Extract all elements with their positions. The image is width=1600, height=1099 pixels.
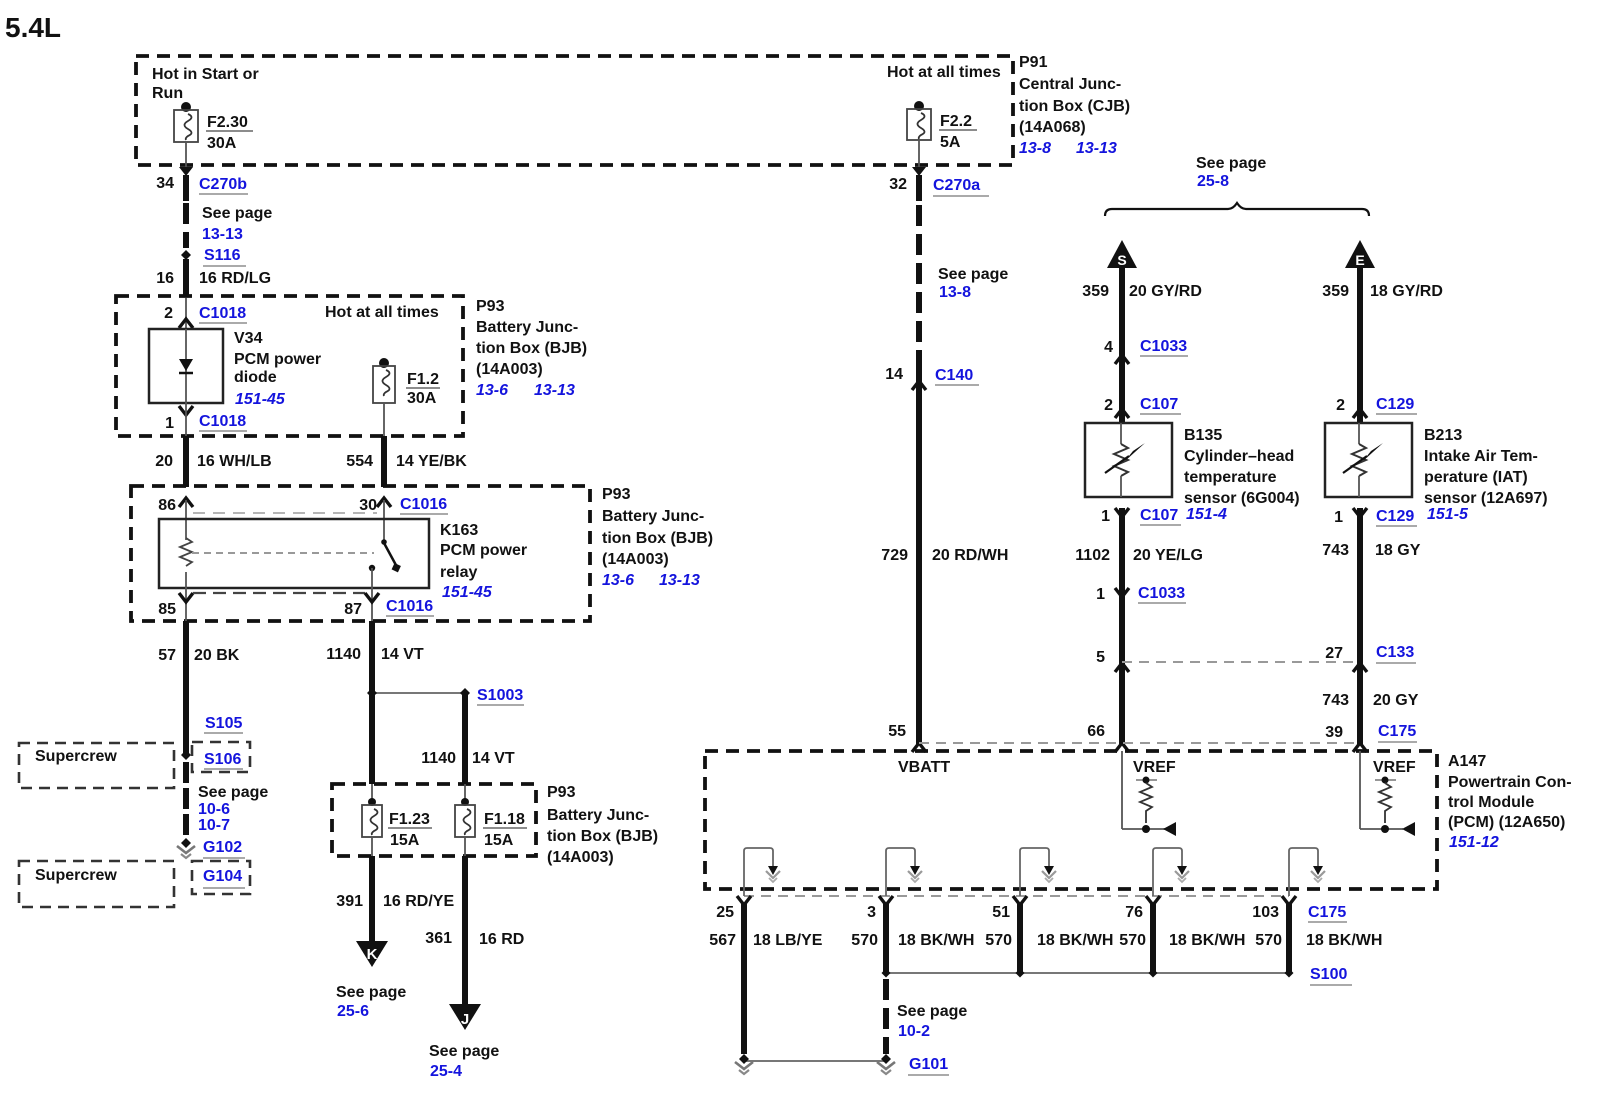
svg-text:13-13: 13-13 bbox=[534, 382, 575, 399]
svg-text:20 GY/RD: 20 GY/RD bbox=[1129, 283, 1202, 300]
svg-text:18 BK/WH: 18 BK/WH bbox=[898, 932, 974, 949]
svg-text:V34: V34 bbox=[234, 330, 263, 347]
wire below F2.2 bbox=[918, 140, 920, 167]
svg-text:C140: C140 bbox=[935, 367, 973, 384]
svg-text:F2.30: F2.30 bbox=[207, 114, 248, 131]
svg-text:Supercrew: Supercrew bbox=[35, 867, 117, 884]
pin 25 arrow bbox=[737, 896, 751, 905]
svg-text:F1.23: F1.23 bbox=[389, 811, 430, 828]
svg-text:See page: See page bbox=[429, 1043, 499, 1060]
pin 85 bbox=[179, 593, 193, 602]
brace bbox=[1105, 203, 1369, 216]
wire 34 C270b bbox=[183, 175, 189, 201]
svg-text:1: 1 bbox=[1096, 586, 1105, 603]
wire 359 20 GY/RD bbox=[1119, 266, 1125, 423]
svg-text:C175: C175 bbox=[1378, 723, 1416, 740]
svg-text:tion Box (BJB): tion Box (BJB) bbox=[602, 530, 713, 547]
svg-text:361: 361 bbox=[425, 930, 452, 947]
svg-text:25-4: 25-4 bbox=[430, 1063, 462, 1080]
svg-text:5: 5 bbox=[1096, 649, 1105, 666]
svg-text:See page: See page bbox=[897, 1003, 967, 1020]
svg-text:B135: B135 bbox=[1184, 427, 1222, 444]
connector C107 pin 2 bbox=[1115, 409, 1129, 418]
wire 57 20 BK bbox=[183, 621, 189, 753]
svg-text:14: 14 bbox=[885, 366, 903, 383]
svg-text:34: 34 bbox=[156, 175, 174, 192]
PCM internal ground hook 5 bbox=[1289, 848, 1318, 896]
Battery Junction Box P93 dashed box 2 (relay) bbox=[131, 486, 590, 621]
svg-text:25: 25 bbox=[716, 904, 734, 921]
svg-text:See page: See page bbox=[198, 784, 268, 801]
svg-text:14 YE/BK: 14 YE/BK bbox=[396, 453, 467, 470]
svg-text:S: S bbox=[1117, 252, 1126, 268]
node S1003 bbox=[372, 692, 465, 694]
svg-text:S1003: S1003 bbox=[477, 687, 523, 704]
svg-text:103: 103 bbox=[1252, 904, 1279, 921]
pin 3 arrow bbox=[879, 896, 893, 905]
svg-text:G102: G102 bbox=[203, 839, 242, 856]
svg-text:C270a: C270a bbox=[933, 177, 980, 194]
relay internal wires to pins 85/87 bbox=[185, 572, 187, 621]
relay coil bbox=[180, 538, 192, 566]
svg-text:15A: 15A bbox=[390, 832, 420, 849]
svg-text:1: 1 bbox=[1101, 508, 1110, 525]
svg-text:151-12: 151-12 bbox=[1449, 834, 1499, 851]
Supercrew box 2 bbox=[19, 861, 174, 907]
PCM internal ground hook 4 bbox=[1153, 848, 1182, 896]
svg-text:Run: Run bbox=[152, 85, 183, 102]
svg-text:554: 554 bbox=[346, 453, 373, 470]
sensor B213 box bbox=[1325, 423, 1412, 497]
svg-text:(14A003): (14A003) bbox=[476, 361, 543, 378]
Supercrew box 1 bbox=[19, 743, 174, 788]
connector C140 bbox=[916, 357, 922, 744]
PCM internal ground hook 2 bbox=[886, 848, 915, 896]
svg-text:13-8: 13-8 bbox=[939, 284, 971, 301]
svg-text:G101: G101 bbox=[909, 1056, 948, 1073]
wire dashed to C140 bbox=[916, 205, 922, 357]
svg-text:1102: 1102 bbox=[1075, 547, 1110, 564]
svg-text:VREF: VREF bbox=[1133, 759, 1176, 776]
svg-text:4: 4 bbox=[1104, 339, 1113, 356]
connector C1033 pin 4 bbox=[1115, 355, 1129, 364]
connector C129 pin 1 bbox=[1353, 508, 1367, 517]
fuse F1.23 bbox=[371, 784, 373, 805]
wire below F1.2 bbox=[383, 403, 385, 436]
svg-text:Battery Junc-: Battery Junc- bbox=[602, 508, 704, 525]
wire 391 16 RD/YE bbox=[369, 856, 375, 943]
svg-text:C1033: C1033 bbox=[1140, 338, 1187, 355]
relay switch bbox=[381, 539, 387, 545]
wire dashed to G101 bbox=[883, 979, 889, 1054]
ground G104 bbox=[192, 861, 250, 894]
svg-text:16 RD: 16 RD bbox=[479, 931, 524, 948]
svg-text:20 BK: 20 BK bbox=[194, 647, 240, 664]
Battery Junction Box P93 dashed box 3 bbox=[332, 784, 536, 856]
pin 87 connector C1016 bbox=[365, 593, 379, 602]
svg-text:16 WH/LB: 16 WH/LB bbox=[197, 453, 272, 470]
svg-text:1: 1 bbox=[165, 415, 174, 432]
svg-text:13-6: 13-6 bbox=[602, 572, 634, 589]
svg-text:sensor (12A697): sensor (12A697) bbox=[1424, 490, 1548, 507]
svg-text:570: 570 bbox=[1255, 932, 1282, 949]
svg-text:tion Box (BJB): tion Box (BJB) bbox=[547, 828, 658, 845]
wire 570 18 BK/WH (3) bbox=[1017, 903, 1023, 973]
svg-text:temperature: temperature bbox=[1184, 469, 1277, 486]
svg-text:20: 20 bbox=[155, 453, 173, 470]
svg-text:C175: C175 bbox=[1308, 904, 1346, 921]
svg-text:Battery Junc-: Battery Junc- bbox=[476, 319, 578, 336]
svg-text:diode: diode bbox=[234, 369, 277, 386]
svg-text:18 GY: 18 GY bbox=[1375, 542, 1421, 559]
svg-text:16 RD/LG: 16 RD/LG bbox=[199, 270, 271, 287]
svg-text:C107: C107 bbox=[1140, 507, 1178, 524]
wire S1003 right branch bbox=[462, 693, 468, 784]
svg-text:85: 85 bbox=[158, 601, 176, 618]
svg-text:PCM power: PCM power bbox=[440, 542, 527, 559]
Powertrain Control Module A147 dashed box bbox=[705, 751, 1437, 889]
svg-text:J: J bbox=[461, 1011, 469, 1028]
svg-text:1140: 1140 bbox=[421, 750, 456, 767]
svg-text:3: 3 bbox=[867, 904, 876, 921]
svg-text:P93: P93 bbox=[602, 486, 631, 503]
svg-text:E: E bbox=[1355, 252, 1364, 268]
svg-text:30A: 30A bbox=[407, 390, 437, 407]
svg-text:perature (IAT): perature (IAT) bbox=[1424, 469, 1528, 486]
svg-text:729: 729 bbox=[881, 547, 908, 564]
svg-text:359: 359 bbox=[1322, 283, 1349, 300]
diode V34 box bbox=[149, 329, 223, 403]
ground G102 bbox=[181, 838, 191, 848]
sensor B135 box bbox=[1085, 423, 1172, 497]
svg-text:51: 51 bbox=[992, 904, 1010, 921]
svg-text:13-13: 13-13 bbox=[202, 226, 243, 243]
svg-text:tion Box (CJB): tion Box (CJB) bbox=[1019, 98, 1130, 115]
svg-text:2: 2 bbox=[1104, 397, 1113, 414]
svg-text:(14A003): (14A003) bbox=[547, 849, 614, 866]
B213 thermistor symbol bbox=[1358, 423, 1360, 444]
svg-text:VREF: VREF bbox=[1373, 759, 1416, 776]
svg-text:32: 32 bbox=[889, 176, 907, 193]
wire 570 18 BK/WH (5) bbox=[1286, 903, 1292, 973]
svg-text:P93: P93 bbox=[476, 298, 505, 315]
svg-text:tion Box (BJB): tion Box (BJB) bbox=[476, 340, 587, 357]
svg-text:Hot at all times: Hot at all times bbox=[325, 304, 439, 321]
wire 570 18 BK/WH (4) bbox=[1150, 903, 1156, 973]
svg-text:15A: 15A bbox=[484, 832, 514, 849]
svg-text:18 BK/WH: 18 BK/WH bbox=[1306, 932, 1382, 949]
svg-text:14 VT: 14 VT bbox=[381, 646, 424, 663]
svg-text:C107: C107 bbox=[1140, 396, 1178, 413]
svg-text:13-13: 13-13 bbox=[659, 572, 700, 589]
svg-text:27: 27 bbox=[1325, 645, 1343, 662]
svg-text:13-13: 13-13 bbox=[1076, 140, 1117, 157]
svg-text:570: 570 bbox=[985, 932, 1012, 949]
svg-text:25-6: 25-6 bbox=[337, 1003, 369, 1020]
svg-text:5.4L: 5.4L bbox=[5, 12, 61, 43]
svg-text:151-45: 151-45 bbox=[235, 391, 286, 408]
fuse F2.30 bbox=[181, 102, 191, 112]
ground G101 link bbox=[744, 1060, 886, 1062]
wire 32 C270a bbox=[916, 175, 922, 201]
svg-text:relay: relay bbox=[440, 564, 477, 581]
svg-text:86: 86 bbox=[158, 497, 176, 514]
svg-text:S100: S100 bbox=[1310, 966, 1347, 983]
svg-text:76: 76 bbox=[1125, 904, 1143, 921]
connector C1016 link (85-87) bbox=[193, 592, 365, 594]
relay K163 box bbox=[159, 519, 429, 588]
svg-text:30: 30 bbox=[359, 497, 377, 514]
wire dashed to S116 bbox=[183, 203, 189, 248]
svg-text:trol Module: trol Module bbox=[1448, 794, 1534, 811]
Central Junction Box P91 dashed box bbox=[136, 56, 1013, 165]
svg-text:S106: S106 bbox=[204, 751, 241, 768]
connector C270b arrow bbox=[179, 167, 193, 176]
wire 1140 14 VT bbox=[369, 621, 375, 784]
svg-text:20 GY: 20 GY bbox=[1373, 692, 1419, 709]
svg-text:743: 743 bbox=[1322, 692, 1349, 709]
svg-text:Battery Junc-: Battery Junc- bbox=[547, 807, 649, 824]
svg-text:K163: K163 bbox=[440, 522, 478, 539]
svg-text:P91: P91 bbox=[1019, 54, 1048, 71]
svg-text:14 VT: 14 VT bbox=[472, 750, 515, 767]
svg-text:30A: 30A bbox=[207, 135, 237, 152]
svg-text:C129: C129 bbox=[1376, 396, 1414, 413]
wire into diode bbox=[185, 298, 187, 329]
svg-text:10-2: 10-2 bbox=[898, 1023, 930, 1040]
svg-text:B213: B213 bbox=[1424, 427, 1462, 444]
svg-text:G104: G104 bbox=[203, 868, 242, 885]
wire 20 16 WH/LB bbox=[183, 436, 189, 487]
svg-text:1: 1 bbox=[1334, 509, 1343, 526]
connector C1033 pin 1 bbox=[1115, 588, 1129, 597]
svg-text:18 BK/WH: 18 BK/WH bbox=[1169, 932, 1245, 949]
svg-text:See page: See page bbox=[202, 205, 272, 222]
svg-text:C129: C129 bbox=[1376, 508, 1414, 525]
wire 361 16 RD bbox=[462, 856, 468, 1006]
svg-text:S105: S105 bbox=[205, 715, 242, 732]
svg-text:P93: P93 bbox=[547, 784, 576, 801]
svg-text:57: 57 bbox=[158, 647, 176, 664]
svg-text:F2.2: F2.2 bbox=[940, 113, 972, 130]
off-page arrow J bbox=[449, 1004, 481, 1030]
svg-text:18 GY/RD: 18 GY/RD bbox=[1370, 283, 1443, 300]
wire 16 RD/LG bbox=[183, 259, 189, 297]
svg-text:Hot at all times: Hot at all times bbox=[887, 64, 1001, 81]
svg-text:F1.2: F1.2 bbox=[407, 371, 439, 388]
svg-text:18 BK/WH: 18 BK/WH bbox=[1037, 932, 1113, 949]
svg-text:C1033: C1033 bbox=[1138, 585, 1185, 602]
svg-text:151-5: 151-5 bbox=[1427, 506, 1469, 523]
svg-text:20 RD/WH: 20 RD/WH bbox=[932, 547, 1008, 564]
wire 554 14 YE/BK bbox=[381, 436, 387, 487]
PCM internal bottom link bbox=[744, 895, 1289, 897]
svg-text:F1.18: F1.18 bbox=[484, 811, 525, 828]
svg-text:151-4: 151-4 bbox=[1186, 506, 1227, 523]
svg-text:16: 16 bbox=[156, 270, 174, 287]
svg-text:2: 2 bbox=[164, 305, 173, 322]
pin 103 arrow bbox=[1282, 896, 1296, 905]
wire 1102 20 YE/LG bbox=[1119, 508, 1125, 744]
off-page arrow E bbox=[1345, 240, 1375, 268]
svg-text:K: K bbox=[367, 946, 378, 963]
svg-text:C1018: C1018 bbox=[199, 413, 246, 430]
svg-text:87: 87 bbox=[344, 601, 362, 618]
fuse F2.2 bbox=[914, 101, 924, 111]
connector C1016 link (86-30) bbox=[193, 512, 377, 514]
svg-text:(PCM) (12A650): (PCM) (12A650) bbox=[1448, 814, 1565, 831]
Battery Junction Box P93 dashed box 1 bbox=[116, 296, 463, 436]
wire 570 18 BK/WH (2) bbox=[883, 903, 889, 973]
off-page arrow S bbox=[1107, 240, 1137, 268]
wire below F2.30 bbox=[185, 142, 187, 167]
pin 1 connector C1018 bbox=[179, 406, 193, 415]
svg-text:20 YE/LG: 20 YE/LG bbox=[1133, 547, 1203, 564]
connector C107 pin 1 bbox=[1115, 508, 1129, 517]
svg-text:PCM power: PCM power bbox=[234, 351, 321, 368]
svg-text:1140: 1140 bbox=[326, 646, 361, 663]
svg-text:C270b: C270b bbox=[199, 176, 247, 193]
svg-text:391: 391 bbox=[336, 893, 363, 910]
pin 51 arrow bbox=[1013, 896, 1027, 905]
pin 76 arrow bbox=[1146, 896, 1160, 905]
node S116 bbox=[181, 250, 191, 260]
diode V34 symbol bbox=[179, 359, 193, 371]
svg-text:10-7: 10-7 bbox=[198, 817, 230, 834]
svg-text:18 LB/YE: 18 LB/YE bbox=[753, 932, 823, 949]
svg-text:2: 2 bbox=[1336, 397, 1345, 414]
svg-text:5A: 5A bbox=[940, 134, 961, 151]
node S100 bbox=[886, 972, 1289, 974]
wire 743 18 GY bbox=[1357, 508, 1363, 744]
svg-text:743: 743 bbox=[1322, 542, 1349, 559]
svg-text:25-8: 25-8 bbox=[1197, 173, 1229, 190]
svg-text:Cylinder–head: Cylinder–head bbox=[1184, 448, 1294, 465]
PCM internal top link bbox=[919, 742, 1360, 744]
svg-text:(14A003): (14A003) bbox=[602, 551, 669, 568]
svg-text:(14A068): (14A068) bbox=[1019, 119, 1086, 136]
fuse F1.18 bbox=[464, 784, 466, 805]
svg-text:Central Junc-: Central Junc- bbox=[1019, 76, 1121, 93]
connector C270a arrow bbox=[912, 167, 926, 176]
PCM internal ground hook 3 bbox=[1020, 848, 1049, 896]
svg-text:55: 55 bbox=[888, 723, 906, 740]
svg-text:C133: C133 bbox=[1376, 644, 1414, 661]
node S106 bbox=[192, 742, 250, 772]
off-page arrow K bbox=[356, 941, 388, 967]
svg-text:13-8: 13-8 bbox=[1019, 140, 1051, 157]
svg-text:66: 66 bbox=[1087, 723, 1105, 740]
svg-text:S116: S116 bbox=[204, 247, 241, 264]
fuse F1.2 bbox=[379, 358, 389, 368]
svg-text:16 RD/YE: 16 RD/YE bbox=[383, 893, 454, 910]
svg-text:Powertrain Con-: Powertrain Con- bbox=[1448, 774, 1572, 791]
svg-text:359: 359 bbox=[1082, 283, 1109, 300]
PCM internal ground hook 1 bbox=[744, 848, 773, 896]
svg-text:151-45: 151-45 bbox=[442, 584, 493, 601]
connector C129 pin 2 bbox=[1353, 409, 1367, 418]
svg-text:VBATT: VBATT bbox=[898, 759, 950, 776]
svg-text:Intake Air Tem-: Intake Air Tem- bbox=[1424, 448, 1538, 465]
svg-text:570: 570 bbox=[1119, 932, 1146, 949]
svg-text:567: 567 bbox=[709, 932, 736, 949]
svg-text:C1016: C1016 bbox=[400, 496, 447, 513]
svg-text:13-6: 13-6 bbox=[476, 382, 508, 399]
wire dashed to G102 bbox=[183, 762, 189, 838]
relay link dashed bbox=[192, 552, 374, 554]
wire 567 18 LB/YE bbox=[741, 903, 747, 1054]
svg-text:C1016: C1016 bbox=[386, 598, 433, 615]
svg-text:C1018: C1018 bbox=[199, 305, 246, 322]
svg-text:570: 570 bbox=[851, 932, 878, 949]
svg-text:Supercrew: Supercrew bbox=[35, 748, 117, 765]
svg-text:See page: See page bbox=[1196, 155, 1266, 172]
B135 thermistor symbol bbox=[1120, 423, 1122, 444]
svg-text:39: 39 bbox=[1325, 724, 1343, 741]
svg-text:Hot in Start or: Hot in Start or bbox=[152, 66, 259, 83]
svg-text:10-6: 10-6 bbox=[198, 801, 230, 818]
svg-text:See page: See page bbox=[336, 984, 406, 1001]
svg-text:sensor (6G004): sensor (6G004) bbox=[1184, 490, 1300, 507]
svg-text:See page: See page bbox=[938, 266, 1008, 283]
svg-text:A147: A147 bbox=[1448, 753, 1486, 770]
wire 359 18 GY/RD bbox=[1357, 266, 1363, 423]
